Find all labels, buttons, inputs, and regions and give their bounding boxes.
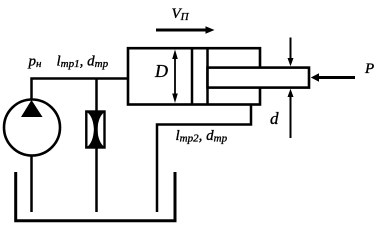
dimension d arrows: [288, 38, 294, 139]
dimension D arrow: [172, 50, 178, 104]
wire: supply line from pump to cylinder: [32, 79, 130, 100]
wire: branch down to throttle valve: [95, 78, 98, 213]
throttle valve: [86, 111, 104, 148]
wire: pump suction line to tank: [30, 155, 33, 212]
tank: [16, 172, 175, 221]
svg-text:d: d: [270, 109, 279, 128]
piston rod: [208, 68, 310, 88]
pump: [4, 100, 60, 156]
wire: return line from cylinder to tank: [157, 104, 251, 212]
velocity V arrow: [156, 26, 215, 34]
piston: [191, 48, 194, 105]
force P arrow: [311, 73, 355, 82]
svg-text:D: D: [154, 61, 168, 81]
cylinder U1 body: [128, 48, 260, 104]
svg-text:P: P: [364, 61, 374, 77]
